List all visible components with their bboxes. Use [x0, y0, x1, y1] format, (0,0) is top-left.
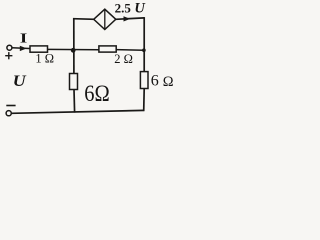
wire right vertical lower segment (R4 to bottom corner) [143, 89, 146, 112]
label U (port voltage) [13, 72, 27, 90]
wire vertical from top-left corner through node A down to middle resistor [73, 18, 75, 74]
label 2.5 U [115, 0, 147, 16]
label I [20, 30, 27, 46]
value label 6Ω (large) [84, 81, 110, 107]
wire top rail left segment to dependent source [73, 18, 95, 21]
node A junction dot [71, 48, 76, 53]
wire middle resistor to bottom rail [73, 90, 76, 113]
terminal + (top-left port terminal) [7, 45, 12, 50]
svg-text:2.5: 2.5 [115, 1, 132, 16]
dependent source 2.5U (diamond) [94, 9, 116, 29]
resistor R1 1Ω (horizontal box) [30, 46, 48, 52]
plus sign [5, 52, 12, 59]
svg-text:1 Ω: 1 Ω [35, 52, 54, 66]
svg-text:Ω: Ω [163, 74, 174, 90]
minus sign [6, 105, 15, 107]
resistor R2 2Ω (horizontal box) [99, 46, 116, 52]
paper background [0, 0, 180, 122]
wire R2 to node B [116, 49, 144, 52]
resistor R3 6Ω (middle vertical box) [70, 74, 78, 90]
wire bottom rail [12, 110, 144, 113]
terminal - (bottom-left port terminal) [6, 111, 11, 116]
svg-text:6Ω: 6Ω [84, 81, 110, 107]
wire terminal to R1 with current arrow [12, 46, 30, 51]
wire right vertical upper segment (corner to R4) [143, 17, 145, 72]
node B junction [142, 48, 146, 52]
svg-text:U: U [13, 72, 27, 90]
svg-text:I: I [20, 30, 27, 46]
svg-text:6: 6 [151, 73, 159, 90]
svg-text:2 Ω: 2 Ω [114, 52, 133, 66]
value label 6 Ω (right) [151, 73, 174, 90]
wire top rail right segment with arrow to corner [116, 16, 144, 21]
svg-text:U: U [134, 0, 146, 16]
wire R1 to R2 (middle rail through node A) [48, 48, 99, 50]
value label 2 Ω [114, 52, 133, 66]
value label 1 Ω [35, 52, 54, 66]
resistor R4 6Ω (right vertical box) [140, 72, 148, 89]
